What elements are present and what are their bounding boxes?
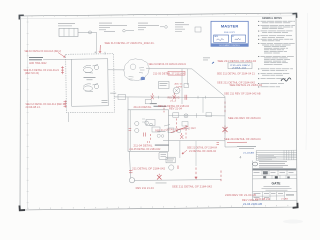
drop wire x129 [130, 152, 131, 179]
svg-text:211-05 DETAIL OF 2184-042: 211-05 DETAIL OF 2184-042 [129, 148, 161, 151]
blue tick on wire [212, 62, 214, 64]
signature row [261, 171, 263, 176]
enclosure center label [84, 76, 96, 79]
motor circle inside cloud [130, 64, 136, 70]
blue check mark in cloud [141, 77, 145, 80]
svg-text:21-04 AB 211: 21-04 AB 211 [255, 198, 271, 201]
svg-text:SEE 211 REV OF 2184-042 AB: SEE 211 REV OF 2184-042 AB [224, 93, 261, 96]
red target marks L4 [64, 100, 68, 107]
component text right [237, 145, 256, 148]
svg-text:211-04 DETAIL: 211-04 DETAIL [134, 106, 153, 109]
svg-text:4: 4 [240, 156, 242, 160]
block C symbol [195, 27, 201, 32]
svg-text:SEE 211 DETAIL OF 2184-04: SEE 211 DETAIL OF 2184-04 [224, 138, 261, 141]
svg-text:SEE 211 DETAIL OF 2184-042 REV: SEE 211 DETAIL OF 2184-042 REV [155, 127, 197, 133]
gray drop x196 [195, 141, 197, 166]
red tick on drop wire [129, 171, 133, 173]
accumulator A1 [59, 28, 78, 36]
wire y140 [163, 139, 225, 142]
component box with blue text [228, 63, 252, 69]
red mark in box [144, 133, 146, 137]
wire from accumulator [78, 31, 97, 33]
enclosure inner box [71, 59, 108, 106]
red valve on y97 at 174 [173, 93, 176, 99]
rect right of box [182, 122, 188, 127]
red valve on y97 at 152 [151, 93, 154, 99]
notes list [261, 20, 267, 23]
svg-text:MASTER: MASTER [221, 24, 239, 29]
red leader M16 [182, 150, 187, 154]
svg-text:2184-04: 2184-04 [232, 67, 248, 69]
red dashes x151 [150, 134, 152, 140]
pump unit box [128, 110, 169, 152]
block B symbol [160, 26, 164, 28]
wire drop x187 [187, 69, 189, 85]
red target marks L3 [61, 66, 64, 74]
red dash on box riser [129, 128, 132, 130]
svg-text:SEE 211 DETAIL OF 21184-01 202: SEE 211 DETAIL OF 21184-01 2022-01 [149, 63, 187, 66]
extra circles in box [145, 121, 149, 125]
red dashes cluster [185, 125, 187, 138]
wire drop x180 [179, 141, 181, 158]
red dashes on riser [224, 102, 226, 113]
enclosure stub down [67, 113, 69, 122]
margin line left [27, 17, 29, 210]
red dashed arrow x196 [195, 168, 197, 179]
component label block C [175, 21, 184, 24]
svg-text:REV 21-04: REV 21-04 [169, 109, 183, 111]
svg-text:21-4: 21-4 [170, 100, 177, 102]
wire riser to component [225, 146, 237, 148]
block A symbol [123, 29, 126, 32]
red dashes y142 [148, 141, 150, 143]
ruler ticks left [27, 21, 29, 23]
gauge circle on y115 [184, 114, 188, 118]
svg-text:211 DETAIL OF 2184-042: 211 DETAIL OF 2184-042 [132, 168, 166, 171]
MASTER stamp [211, 21, 248, 47]
svg-text:REV 211 21-04: REV 211 21-04 [136, 187, 155, 190]
svg-text:SEE 211 DETAIL OF 2184-042: SEE 211 DETAIL OF 2184-042 [172, 186, 213, 189]
ruler ticks bottom [27, 208, 29, 209]
valve rects [146, 120, 155, 126]
corner mark bottom-left [20, 206, 26, 211]
gray label above box [154, 105, 167, 108]
wire down into enclosure [96, 32, 98, 53]
accumulator A1 label [58, 22, 75, 25]
pump symbol P2 [83, 84, 99, 92]
red valve crossing box top [163, 108, 165, 113]
red leader L1 [58, 53, 65, 58]
component label block B [138, 22, 148, 25]
svg-text:21-04 AB: 21-04 AB [243, 151, 255, 154]
svg-text:SEE FLX DETAIL OF 2111-04-21 (: SEE FLX DETAIL OF 2111-04-21 (REF 2) [25, 50, 62, 53]
svg-text:GATE: GATE [272, 181, 282, 185]
svg-text:21319-AB 2-1: 21319-AB 2-1 [26, 106, 42, 109]
wire drop x182 [181, 69, 183, 104]
small gray box right [184, 84, 189, 88]
corner mark bottom-right [293, 203, 298, 208]
red valve on flow line [157, 174, 162, 180]
bottom flow line [134, 179, 221, 182]
svg-text:21 DETAIL OF 2184-04: 21 DETAIL OF 2184-04 [189, 150, 217, 153]
svg-text:BY: BY [232, 36, 234, 38]
gauge circle C [169, 165, 174, 170]
svg-text:SEE DETAIL 21 2184-04: SEE DETAIL 21 2184-04 [230, 84, 263, 87]
gray label left of red row [150, 102, 157, 105]
wire box to cloud [108, 69, 125, 71]
svg-text:4-PB: 4-PB [176, 86, 183, 88]
corner mark top-right [292, 14, 296, 18]
small rect on y115 [173, 113, 179, 117]
title block [253, 150, 298, 201]
svg-text:SEE 211 REV OF 2184-04: SEE 211 REV OF 2184-04 [228, 117, 261, 120]
red valve mark on riser [223, 126, 228, 134]
enclosure dashed box [66, 54, 115, 113]
wire y97 main run [114, 96, 225, 99]
red dash C [177, 166, 179, 170]
wire label to inner box [43, 59, 72, 61]
red marks near border [217, 143, 220, 145]
red leader T5 [99, 45, 101, 53]
svg-text:ADD 7994-3022: ADD 7994-3022 [29, 62, 47, 65]
red dashed vertical x176 [176, 119, 178, 132]
revision cloud [124, 59, 149, 81]
long red row mid [155, 127, 197, 133]
gray ticks on y97 [159, 96, 206, 99]
oval mark [253, 162, 258, 166]
svg-text:2184 REV OF 21-04 AB: 2184 REV OF 21-04 AB [225, 194, 256, 197]
margin line top [21, 16, 296, 19]
svg-text:21-04 2184 AB: 21-04 2184 AB [243, 203, 262, 206]
svg-text:ADD 21: ADD 21 [175, 83, 184, 86]
corner mark top-left [19, 15, 24, 19]
svg-text:REV 21 DETAIL OF 2184-04: REV 21 DETAIL OF 2184-04 [158, 105, 190, 108]
mixed cluster [164, 125, 189, 133]
junction text [203, 57, 210, 60]
red dashed x221 [220, 171, 222, 182]
gray circles y135 [157, 134, 160, 137]
wire y115 run [169, 114, 226, 117]
border frame [20, 13, 297, 210]
motor circles [135, 121, 139, 125]
svg-text:SEE FLX DETAIL 27 21184 PG_202: SEE FLX DETAIL 27 21184 PG_2022-01. [105, 42, 155, 45]
enclosure corner text [102, 99, 108, 102]
pump circle bottom [129, 178, 134, 183]
red diagonal [171, 126, 189, 133]
wire cloud to junction [146, 67, 192, 70]
gray label box bottom [155, 144, 169, 147]
valve box VB2 [166, 157, 175, 163]
internal riser [129, 110, 131, 151]
valve box VB1 [159, 82, 170, 89]
svg-text:21 AB: 21 AB [281, 198, 289, 201]
paper smudge bottom right [283, 220, 303, 224]
notes handwritten mark [281, 78, 291, 81]
wire drop into box [127, 97, 129, 110]
riser wire x225 [224, 97, 226, 148]
vertical stub x203 [202, 98, 204, 113]
title header dark bar [253, 168, 297, 170]
box gray text [158, 130, 166, 133]
gauge circle with cross [173, 87, 180, 94]
component label block A [99, 22, 112, 25]
red mark on y97 at 186 [185, 95, 187, 100]
ruler ticks top [31, 16, 33, 17]
pump symbol P1 [83, 65, 99, 74]
svg-text:DOCUMENT CONTROL: DOCUMENT CONTROL [219, 45, 240, 47]
tank T1 [159, 152, 168, 159]
svg-text:FILE COPY: FILE COPY [224, 32, 235, 34]
svg-text:GENERAL NOTES: GENERAL NOTES [262, 17, 282, 20]
gray label hose assy [29, 56, 43, 59]
paper edge right [306, 13, 308, 150]
svg-text:SEE 211 DETAIL OF 2184-04 21: SEE 211 DETAIL OF 2184-04 21 [217, 73, 256, 76]
svg-text:211-04 DETAIL: 211-04 DETAIL [134, 144, 154, 147]
gray text under flow line [156, 182, 167, 185]
svg-text:(REF NO 24): (REF NO 24) [25, 72, 39, 75]
diagonal wire [192, 69, 225, 97]
red valve x181 [180, 133, 183, 139]
small box cluster B2 [145, 100, 151, 104]
check valve V1 [89, 31, 92, 34]
valve on wire y97 [118, 95, 126, 100]
